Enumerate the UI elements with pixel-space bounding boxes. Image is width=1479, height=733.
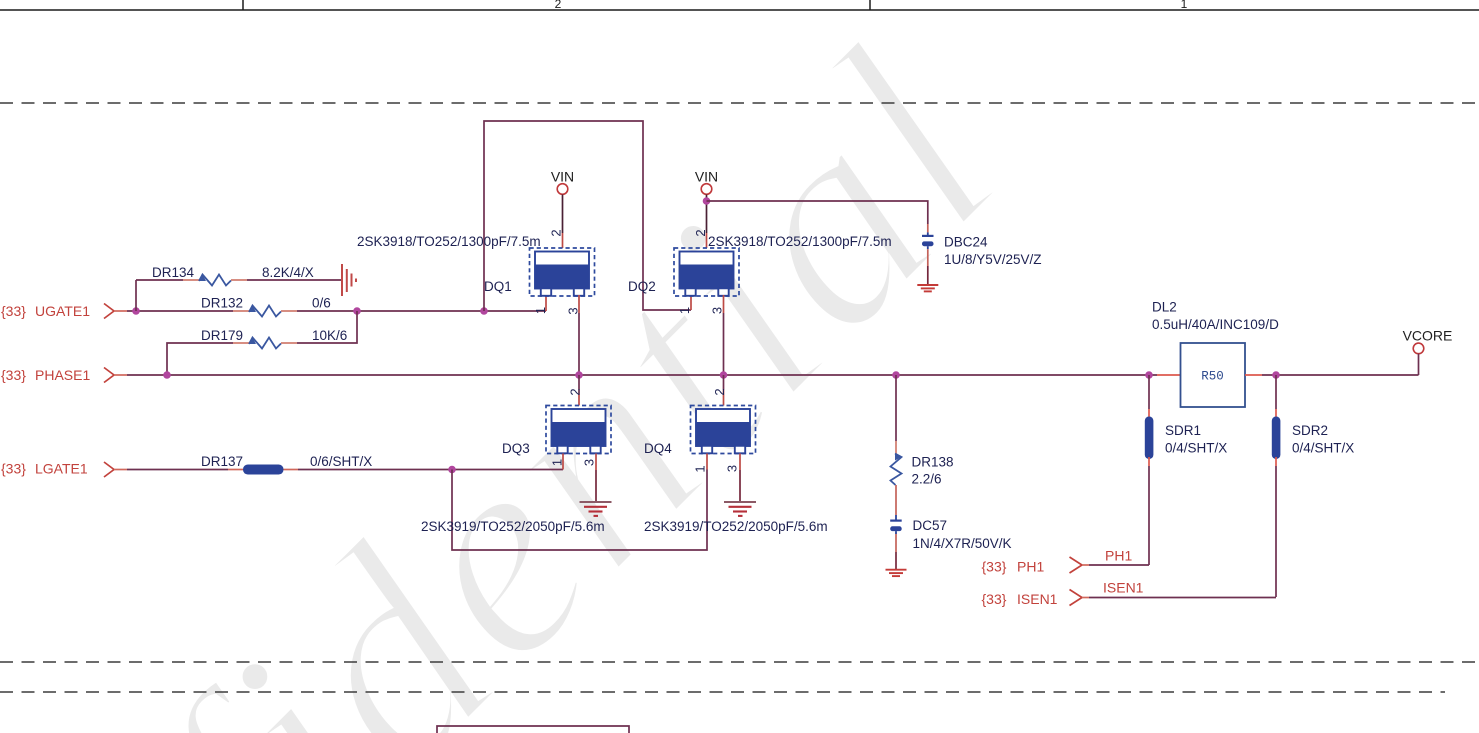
svg-text:1N/4/X7R/50V/K: 1N/4/X7R/50V/K	[913, 536, 1012, 551]
power VIN 1	[551, 169, 574, 249]
svg-text:PH1: PH1	[1017, 559, 1044, 575]
svg-text:1: 1	[533, 307, 548, 314]
svg-text:UGATE1: UGATE1	[35, 303, 90, 319]
wire DR179 left leg	[167, 343, 233, 375]
node PHASE1/SDR1 junction	[1145, 371, 1153, 379]
svg-text:DQ4: DQ4	[644, 441, 672, 456]
svg-text:0/6: 0/6	[312, 296, 331, 311]
power ground at DQ4	[724, 502, 756, 516]
svg-text:{33}: {33}	[1, 367, 26, 383]
wire DR134 branch vertical	[135, 280, 137, 311]
power VIN 2	[695, 169, 718, 249]
svg-text:3: 3	[725, 465, 740, 472]
wire DR134 to ground	[247, 279, 341, 281]
node VIN2 junction	[703, 197, 711, 205]
inductor DL2	[1152, 300, 1279, 408]
frame top border	[0, 0, 1479, 10]
svg-text:2SK3919/TO252/2050pF/5.6m: 2SK3919/TO252/2050pF/5.6m	[421, 519, 605, 534]
node PHASE1/DQ3 junction	[575, 371, 583, 379]
wire DQ3 pin1 lead	[562, 454, 564, 470]
svg-text:{33}: {33}	[982, 559, 1007, 575]
wire DQ4 pin2	[723, 375, 725, 406]
svg-text:SDR1: SDR1	[1165, 423, 1201, 438]
resistor DR134	[152, 265, 314, 286]
connector ISEN1	[1070, 590, 1083, 606]
svg-text:DBC24: DBC24	[944, 235, 988, 250]
svg-text:DL2: DL2	[1152, 300, 1177, 315]
svg-text:DQ1: DQ1	[484, 279, 512, 294]
wire DQ1 pin3 to PHASE1	[578, 295, 580, 375]
svg-text:VIN: VIN	[695, 169, 718, 185]
wire DQ4 pin1 lead	[706, 454, 708, 470]
transistor DQ3	[502, 388, 611, 466]
svg-text:2: 2	[549, 229, 564, 236]
svg-text:2.2/6: 2.2/6	[912, 472, 942, 487]
resistor DR179	[201, 328, 347, 349]
svg-text:{33}: {33}	[982, 591, 1007, 607]
node UGATE1 junction	[132, 307, 140, 315]
svg-text:8.2K/4/X: 8.2K/4/X	[262, 265, 314, 280]
wire LGATE1	[127, 469, 228, 471]
svg-text:3: 3	[582, 459, 597, 466]
connector PHASE1	[104, 368, 114, 383]
node PHASE1/DR179 junction	[163, 371, 171, 379]
wire ISEN1	[1089, 597, 1276, 599]
svg-text:DQ3: DQ3	[502, 441, 530, 456]
wire SDR2 to ISEN1	[1275, 466, 1277, 597]
svg-text:0/4/SHT/X: 0/4/SHT/X	[1292, 441, 1354, 456]
svg-text:PHASE1: PHASE1	[35, 367, 90, 383]
svg-text:2: 2	[712, 388, 727, 395]
wire PH1	[1089, 564, 1149, 566]
svg-text:1: 1	[693, 465, 708, 472]
svg-text:Confidential: Confidential	[0, 0, 1060, 733]
svg-text:DC57: DC57	[913, 518, 948, 533]
svg-text:2SK3918/TO252/1300pF/7.5m: 2SK3918/TO252/1300pF/7.5m	[357, 234, 541, 249]
wire LGATE1 loop to DQ4	[452, 470, 707, 551]
connector PH1	[1070, 557, 1083, 573]
svg-text:{33}: {33}	[1, 461, 26, 477]
wire DQ4 pin3 lead	[739, 454, 741, 471]
svg-text:DQ2: DQ2	[628, 279, 656, 294]
resistor DR137 jumper	[201, 454, 372, 475]
transistor DQ1	[484, 229, 595, 314]
wire DR179 right leg	[297, 311, 357, 343]
connector LGATE1	[104, 462, 114, 477]
resistor SDR2 jumper	[1272, 375, 1354, 466]
ground at DBC24	[917, 285, 938, 291]
svg-text:2: 2	[693, 229, 708, 236]
node LGATE1 junction	[448, 466, 456, 474]
svg-text:DR134: DR134	[152, 265, 195, 280]
connector UGATE1	[104, 304, 114, 319]
resistor DR138	[891, 375, 954, 515]
resistor SDR1 jumper	[1145, 375, 1227, 466]
wire DQ2 pin1 lead	[690, 295, 692, 310]
svg-text:2: 2	[568, 388, 583, 395]
transistor DQ4	[644, 388, 756, 472]
svg-text:DR179: DR179	[201, 328, 243, 343]
wire VIN2 to DBC24	[707, 201, 928, 224]
capacitor DC57	[890, 515, 1011, 569]
svg-text:DR137: DR137	[201, 454, 243, 469]
svg-text:0.5uH/40A/INC109/D: 0.5uH/40A/INC109/D	[1152, 317, 1279, 332]
svg-text:0/4/SHT/X: 0/4/SHT/X	[1165, 441, 1227, 456]
dashed separator top	[0, 102, 1479, 104]
svg-text:2SK3918/TO252/1300pF/7.5m: 2SK3918/TO252/1300pF/7.5m	[708, 234, 892, 249]
node UGATE1/DR179 junction	[353, 307, 361, 315]
wire UGATE1 right of DR132	[297, 310, 546, 312]
dashed separator bottom 2	[0, 691, 1445, 693]
svg-text:PH1: PH1	[1105, 548, 1132, 564]
svg-text:2: 2	[555, 0, 562, 11]
ground rotated at DR134	[342, 264, 356, 296]
partial box bottom	[437, 726, 629, 733]
transistor DQ2	[628, 229, 739, 314]
svg-text:VIN: VIN	[551, 169, 574, 185]
svg-text:{33}: {33}	[1, 303, 26, 319]
power VCORE	[1403, 328, 1453, 376]
wire PHASE1	[127, 374, 1157, 376]
svg-text:3: 3	[710, 307, 725, 314]
svg-text:VCORE: VCORE	[1403, 328, 1453, 344]
svg-text:DR138: DR138	[912, 455, 954, 470]
wire UGATE1	[127, 310, 233, 312]
ground at DC57	[886, 570, 907, 576]
svg-text:0/6/SHT/X: 0/6/SHT/X	[310, 454, 372, 469]
svg-text:DR132: DR132	[201, 296, 243, 311]
wire DQ1 pin1 lead	[545, 295, 547, 311]
svg-text:1: 1	[1181, 0, 1188, 11]
capacitor DBC24	[922, 224, 1042, 284]
svg-text:ISEN1: ISEN1	[1017, 591, 1058, 607]
svg-text:SDR2: SDR2	[1292, 423, 1328, 438]
wire DL2 to VCORE	[1262, 374, 1419, 376]
wire LGATE1 to DQ3	[298, 469, 563, 471]
wire UGATE1 loop to DQ2	[484, 121, 691, 311]
node DL2/SDR2 junction	[1272, 371, 1280, 379]
wire DQ3 pin2	[578, 375, 580, 406]
resistor DR132	[201, 296, 331, 317]
svg-text:R50: R50	[1201, 370, 1224, 384]
wire DQ3 pin3 lead	[595, 454, 597, 471]
svg-text:1: 1	[677, 307, 692, 314]
svg-text:2SK3919/TO252/2050pF/5.6m: 2SK3919/TO252/2050pF/5.6m	[644, 519, 828, 534]
svg-text:ISEN1: ISEN1	[1103, 580, 1144, 596]
wire DR134 left	[136, 279, 183, 281]
wire DQ2 pin3 to PHASE1	[723, 295, 725, 375]
svg-text:10K/6: 10K/6	[312, 328, 347, 343]
svg-text:1U/8/Y5V/25V/Z: 1U/8/Y5V/25V/Z	[944, 252, 1042, 267]
svg-text:LGATE1: LGATE1	[35, 461, 88, 477]
wire SDR1 to PH1	[1148, 466, 1150, 565]
node PHASE1/DR138 junction	[892, 371, 900, 379]
dashed separator bottom 1	[0, 661, 1479, 663]
node UGATE1/DQ2 loop junction	[480, 307, 488, 315]
node PHASE1/DQ4 junction	[720, 371, 728, 379]
power ground at DQ3	[580, 502, 612, 516]
